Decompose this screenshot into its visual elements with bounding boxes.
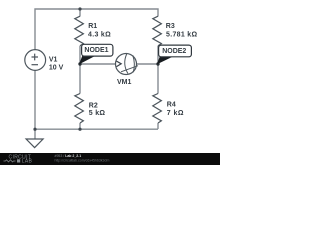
svg-text:5 kΩ: 5 kΩ [89, 110, 106, 117]
svg-text:V1: V1 [49, 57, 58, 64]
svg-text:LAB: LAB [22, 158, 33, 164]
svg-text:NODE2: NODE2 [162, 48, 186, 55]
svg-text:7 kΩ: 7 kΩ [167, 110, 184, 117]
svg-text:NODE1: NODE1 [84, 47, 108, 54]
svg-text:R3: R3 [166, 23, 175, 30]
svg-text:http://circuitlab.com/c6x45h63: http://circuitlab.com/c6x45h63k3dm [55, 158, 110, 162]
svg-text:5.781 kΩ: 5.781 kΩ [166, 32, 197, 39]
svg-text:4.3 kΩ: 4.3 kΩ [88, 32, 111, 39]
svg-text:R4: R4 [167, 102, 176, 109]
svg-text:R1: R1 [88, 23, 97, 30]
svg-text:10 V: 10 V [49, 64, 64, 71]
svg-text:#953 / Lab 2_2.1: #953 / Lab 2_2.1 [55, 154, 82, 158]
svg-text:VM1: VM1 [117, 79, 132, 86]
svg-text:R2: R2 [89, 102, 98, 109]
